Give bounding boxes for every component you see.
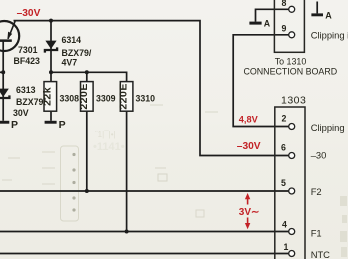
svg-text:BZX79/: BZX79/ <box>16 97 46 107</box>
svg-text:220E: 220E <box>118 83 130 110</box>
svg-text:3310: 3310 <box>136 93 156 103</box>
svg-text:A: A <box>264 19 271 29</box>
svg-text:To 1310: To 1310 <box>275 56 307 66</box>
svg-text:NTC: NTC <box>311 249 330 259</box>
svg-text:6314: 6314 <box>62 35 82 45</box>
svg-text:3V∼: 3V∼ <box>239 207 260 218</box>
svg-text:5: 5 <box>281 178 286 188</box>
svg-text:220E: 220E <box>78 83 90 110</box>
svg-text:Clipping i: Clipping i <box>311 29 348 40</box>
svg-text:6313: 6313 <box>16 85 36 95</box>
svg-text:1: 1 <box>284 242 289 252</box>
svg-text:¨1|¯|•|: ¨1|¯|•| <box>95 130 116 139</box>
svg-text:–30V: –30V <box>17 8 41 19</box>
svg-text:8: 8 <box>282 0 287 8</box>
svg-text:3308: 3308 <box>60 93 80 103</box>
svg-text:–30: –30 <box>311 150 327 161</box>
svg-text:BF423: BF423 <box>14 56 41 66</box>
svg-text:P: P <box>59 119 66 131</box>
svg-text:4V7: 4V7 <box>62 57 78 67</box>
svg-text:CONNECTION BOARD: CONNECTION BOARD <box>243 67 337 77</box>
svg-text:A: A <box>325 11 332 21</box>
svg-text:F1: F1 <box>311 228 322 239</box>
svg-text:6: 6 <box>281 143 286 153</box>
svg-text:4: 4 <box>282 220 287 230</box>
svg-text:–30V: –30V <box>237 141 261 152</box>
svg-text:•1141•: •1141• <box>93 141 125 153</box>
svg-text:9: 9 <box>282 24 287 34</box>
svg-text:4,8V: 4,8V <box>239 114 259 124</box>
svg-text:3309: 3309 <box>96 93 116 103</box>
svg-text:30V: 30V <box>13 108 29 118</box>
svg-text:F2: F2 <box>311 186 322 197</box>
svg-text:2: 2 <box>282 114 287 124</box>
svg-text:Clipping: Clipping <box>311 122 345 133</box>
svg-text:1303: 1303 <box>281 94 306 106</box>
svg-text:7301: 7301 <box>18 45 38 55</box>
svg-text:P: P <box>11 119 18 131</box>
